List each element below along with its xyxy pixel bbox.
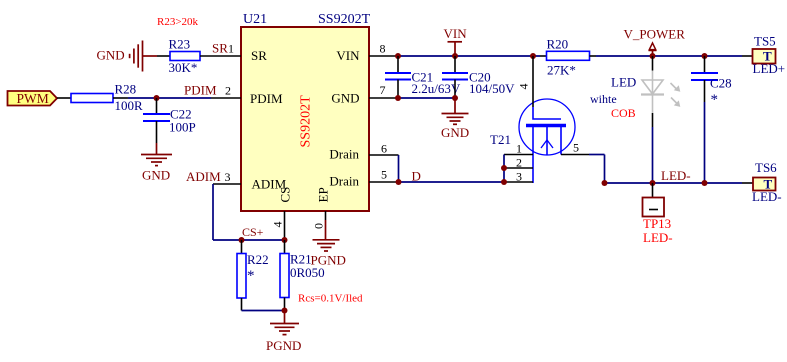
svg-text:*: * bbox=[247, 268, 255, 284]
ground PGND at EP bbox=[313, 240, 340, 251]
svg-text:5: 5 bbox=[381, 168, 387, 182]
svg-text:LED-: LED- bbox=[752, 189, 782, 204]
svg-text:SS9202T: SS9202T bbox=[318, 12, 371, 27]
pin 1 of T21 bbox=[504, 154, 533, 156]
pin lead bottom of R22 bbox=[241, 298, 243, 311]
svg-text:2: 2 bbox=[516, 156, 522, 170]
wire LED- rail bbox=[605, 182, 743, 184]
wire VIN rail left segment bbox=[398, 55, 540, 57]
test point TP13 bbox=[643, 198, 665, 217]
wire ADIM down to CS+ row bbox=[212, 184, 214, 240]
wire C20 to pin7 row bbox=[454, 80, 456, 99]
wire C22 to ground bbox=[156, 121, 158, 143]
svg-text:ADIM: ADIM bbox=[186, 169, 221, 184]
svg-text:100P: 100P bbox=[169, 120, 196, 135]
wire R23 to IC pin 1 SR bbox=[200, 55, 241, 57]
resistor R22 bbox=[237, 254, 246, 299]
svg-text:1: 1 bbox=[516, 142, 522, 156]
pin lead left of R20 bbox=[540, 55, 547, 57]
svg-text:R23>20k: R23>20k bbox=[157, 16, 199, 28]
wire pin7 row bbox=[398, 97, 455, 99]
svg-text:0R050: 0R050 bbox=[290, 265, 325, 280]
svg-text:30K*: 30K* bbox=[169, 60, 198, 75]
svg-text:R23: R23 bbox=[169, 37, 191, 52]
junction C20/VIN bbox=[452, 53, 458, 59]
svg-text:EP: EP bbox=[316, 187, 331, 202]
svg-text:27K*: 27K* bbox=[547, 63, 576, 78]
svg-text:GND: GND bbox=[142, 168, 170, 183]
svg-text:GND: GND bbox=[97, 48, 125, 63]
svg-text:CS: CS bbox=[278, 187, 293, 203]
svg-text:4: 4 bbox=[517, 84, 531, 90]
capacitor C21 bbox=[385, 72, 411, 74]
pin lead right of R20 bbox=[590, 55, 597, 57]
svg-text:SS9202T: SS9202T bbox=[299, 95, 314, 148]
ground GND under C22 bbox=[141, 143, 172, 166]
wire T21 pins 1-2-3 bus bbox=[503, 155, 505, 183]
pin 2 PDIM lead bbox=[211, 97, 241, 99]
wire C21 to pin7 row bbox=[397, 80, 399, 99]
svg-text:LED: LED bbox=[611, 75, 636, 90]
resistor R21 bbox=[280, 254, 289, 298]
svg-text:TP13: TP13 bbox=[643, 216, 671, 231]
svg-text:COB: COB bbox=[611, 106, 636, 120]
svg-text:GND: GND bbox=[331, 91, 359, 106]
svg-text:LED+: LED+ bbox=[753, 61, 786, 76]
svg-text:5: 5 bbox=[573, 141, 579, 155]
junction bus/pin2 bbox=[501, 165, 507, 171]
wire pin6 down to pin5 row bbox=[398, 155, 400, 182]
wire to PGND ground bbox=[284, 311, 286, 324]
svg-text:100R: 100R bbox=[115, 98, 144, 113]
pin 5 Drain lead bbox=[369, 181, 399, 183]
svg-text:1: 1 bbox=[228, 42, 234, 56]
wire rail to C21 bbox=[397, 56, 399, 73]
svg-text:wihte: wihte bbox=[590, 92, 617, 106]
svg-text:VIN: VIN bbox=[336, 48, 360, 63]
svg-text:CS+: CS+ bbox=[242, 225, 264, 239]
pin 0 EP lead bbox=[325, 211, 327, 220]
junction T21 gate tap bbox=[530, 53, 536, 59]
svg-text:LED-: LED- bbox=[661, 168, 691, 183]
port PWM bbox=[8, 91, 58, 106]
ground PGND bottom bbox=[270, 324, 299, 335]
svg-text:R20: R20 bbox=[547, 37, 569, 52]
wire rail to C20 bbox=[454, 56, 456, 73]
LED (COB white) bbox=[641, 71, 677, 114]
svg-text:TS6: TS6 bbox=[755, 160, 777, 175]
svg-text:3: 3 bbox=[225, 170, 231, 184]
svg-text:3: 3 bbox=[516, 170, 522, 184]
svg-text:R28: R28 bbox=[115, 82, 137, 97]
pin 3 of T21 bbox=[504, 181, 533, 183]
svg-text:4: 4 bbox=[271, 222, 285, 228]
svg-text:Drain: Drain bbox=[329, 147, 359, 162]
junction CS pin/R21 bbox=[282, 237, 288, 243]
junction bus/pin3/D bbox=[501, 179, 507, 185]
wire rail to TP13 bbox=[652, 183, 654, 198]
pin 4 CS lead bbox=[284, 211, 286, 240]
svg-text:7: 7 bbox=[380, 83, 386, 97]
wire CS+ row bbox=[213, 239, 285, 241]
wire rail to TS5 bbox=[742, 55, 753, 57]
pin 5 of T21 bbox=[561, 154, 589, 156]
svg-text:2: 2 bbox=[225, 84, 231, 98]
junction PDIM/C22 bbox=[154, 95, 160, 101]
svg-text:PGND: PGND bbox=[266, 338, 301, 353]
svg-text:SR: SR bbox=[251, 48, 267, 63]
pin 7 GND lead bbox=[369, 97, 398, 99]
svg-text:PDIM: PDIM bbox=[184, 83, 217, 98]
wire C28 lower lead bbox=[704, 80, 706, 102]
svg-text:U21: U21 bbox=[243, 12, 267, 27]
svg-text:8: 8 bbox=[380, 42, 386, 56]
capacitor C28 bbox=[691, 72, 718, 74]
junction rail/C28 bbox=[702, 53, 708, 59]
svg-text:VIN: VIN bbox=[444, 26, 468, 41]
ground GND (rotated, left of R23) bbox=[130, 41, 157, 72]
wire C28 to LED- rail bbox=[704, 102, 706, 183]
junction pin7/C21 bbox=[395, 95, 401, 101]
svg-text:Rcs=0.1V/Iled: Rcs=0.1V/Iled bbox=[298, 293, 363, 305]
junction bottom row/ground bbox=[282, 308, 288, 314]
svg-text:PWM: PWM bbox=[17, 91, 49, 106]
svg-text:104/50V: 104/50V bbox=[469, 81, 515, 96]
pin lead left of R23 bbox=[157, 55, 170, 57]
pin 4 of T21 bbox=[532, 56, 534, 107]
ground GND under C20 bbox=[442, 98, 469, 124]
pin 3 ADIM lead bbox=[213, 183, 241, 185]
junction C20/ground bbox=[452, 95, 458, 101]
svg-text:R22: R22 bbox=[247, 252, 269, 267]
pin lead top of R22 bbox=[241, 240, 243, 254]
wire LED cathode lead bbox=[652, 113, 654, 127]
pin lead right of R28 bbox=[113, 97, 128, 99]
junction CS+/R22 bbox=[239, 237, 245, 243]
svg-text:*: * bbox=[711, 92, 719, 108]
svg-text:LED-: LED- bbox=[643, 230, 673, 245]
capacitor C22 bbox=[143, 113, 170, 115]
pin 8 VIN lead bbox=[369, 55, 398, 57]
wire LED to LED- rail bbox=[652, 127, 654, 183]
wire pin5 to corner bbox=[589, 154, 605, 156]
wire rail to TS6 bbox=[742, 182, 753, 184]
svg-text:2.2u/63V: 2.2u/63V bbox=[412, 81, 461, 96]
svg-text:Drain: Drain bbox=[329, 174, 359, 189]
resistor R20 bbox=[547, 51, 590, 60]
pin 2 of T21 bbox=[504, 167, 533, 169]
wire D net bbox=[399, 181, 505, 183]
wire pin5 down to LED- rail bbox=[604, 155, 606, 184]
pin lead top of R21 bbox=[284, 240, 286, 254]
svg-text:TS5: TS5 bbox=[754, 34, 776, 49]
svg-text:6: 6 bbox=[381, 142, 387, 156]
port TS5 bbox=[753, 49, 776, 64]
capacitor C20 bbox=[442, 72, 468, 74]
wire PDIM net bbox=[128, 97, 211, 99]
svg-text:C28: C28 bbox=[710, 76, 732, 91]
wire PWM port to R28 bbox=[57, 97, 71, 99]
pin 6 Drain lead bbox=[369, 154, 399, 156]
svg-text:D: D bbox=[412, 169, 421, 184]
wire junction to C22 bbox=[156, 98, 158, 114]
junction pin8/C21 bbox=[395, 53, 401, 59]
svg-text:SR: SR bbox=[212, 41, 228, 56]
svg-text:T21: T21 bbox=[490, 132, 511, 147]
svg-text:PDIM: PDIM bbox=[250, 91, 283, 106]
port TS6 bbox=[753, 178, 776, 191]
resistor R23 bbox=[170, 52, 200, 61]
wire R22/R21 bottom row bbox=[242, 310, 285, 312]
svg-text:V_POWER: V_POWER bbox=[624, 27, 686, 42]
svg-text:0: 0 bbox=[312, 223, 326, 229]
junction V_POWER/LED bbox=[650, 53, 656, 59]
wire EP to ground bbox=[325, 220, 327, 240]
svg-text:GND: GND bbox=[441, 125, 469, 140]
junction pin5/pin6 bbox=[396, 179, 402, 185]
wire rail to C28 bbox=[704, 56, 706, 73]
wire rail to LED anode bbox=[652, 56, 654, 71]
resistor R28 bbox=[71, 94, 113, 103]
junction LED/TP13 bbox=[650, 180, 656, 186]
pin lead bottom of R21 bbox=[284, 298, 286, 311]
junction pin5/LED- rail bbox=[602, 180, 608, 186]
junction C28/LED- rail bbox=[702, 180, 708, 186]
transistor T21 bbox=[519, 99, 575, 183]
IC U21 body (SS9202T) bbox=[241, 27, 369, 211]
wire VIN rail right segment bbox=[596, 55, 742, 57]
